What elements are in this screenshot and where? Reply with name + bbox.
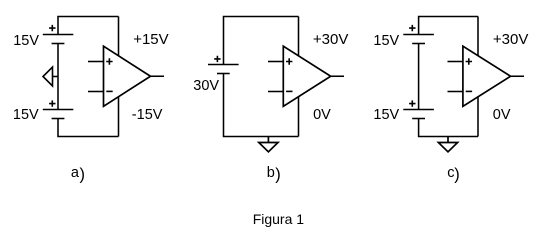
svg-text:0V: 0V [313, 107, 331, 123]
wire: circuit a bottom rail from B2 - to op-amp V- corner [58, 119, 119, 137]
wire: U1 output stub [151, 75, 165, 77]
svg-text:15V: 15V [13, 33, 39, 49]
svg-text:Figura 1: Figura 1 [253, 211, 305, 227]
battery B5 (bottom 15V source, circuit c) [403, 100, 434, 118]
wire: circuit a top rail from battery B1 + to op-amp V+ corner [58, 17, 119, 35]
U1 - input marker [106, 90, 112, 92]
U2 - input marker [286, 90, 292, 92]
wire: U3 noninverting input stub [448, 61, 464, 63]
svg-text:30V: 30V [193, 78, 219, 94]
wire: U3 inverting input stub [448, 91, 464, 93]
svg-text:): ) [275, 165, 281, 183]
common reference arrow on circuit a midpoint node [43, 67, 58, 86]
wire: U3 output stub [511, 75, 525, 77]
svg-text:-15V: -15V [132, 107, 163, 123]
wire: U1 inverting input stub [88, 91, 104, 93]
wire: U2 inverting input stub [268, 91, 284, 93]
wire: circuit a V- supply rise into op-amp U1 bottom edge [118, 96, 120, 137]
svg-text:15V: 15V [373, 107, 399, 123]
svg-text:): ) [80, 165, 86, 183]
battery B4 (top 15V source, circuit c) [403, 25, 434, 44]
wire: circuit c top rail from battery B4 + to op-amp V+ corner [419, 17, 478, 35]
wire: circuit b left rail from battery B3 + up and right to op-amp V+ corner [224, 17, 299, 65]
battery B2 (bottom 15V source, circuit a) [43, 100, 74, 118]
svg-text:15V: 15V [373, 33, 399, 49]
wire: circuit c bottom rail from B5 - to op-amp V- corner [419, 119, 478, 137]
U3 - input marker [466, 90, 472, 92]
battery B3 (30V source, circuit b) [208, 56, 239, 74]
wire: U2 noninverting input stub [268, 61, 284, 63]
svg-text:15V: 15V [13, 107, 39, 123]
svg-text:b: b [267, 165, 275, 181]
wire: circuit a V+ supply drop into op-amp U1 top edge [118, 17, 120, 58]
svg-text:+30V: +30V [313, 31, 348, 48]
op-amp U1 triangle [104, 46, 151, 106]
ground symbol GND2 on circuit c bottom rail [438, 137, 457, 152]
ground symbol GND1 on circuit b bottom rail [259, 137, 278, 152]
wire: U2 output stub [331, 75, 344, 77]
battery B1 (top 15V source, circuit a) [43, 25, 74, 44]
svg-text:+30V: +30V [493, 31, 528, 48]
U1 + input marker [106, 58, 112, 64]
wire: circuit a middle segment between B1 and B2 [57, 44, 59, 110]
wire: circuit c middle segment between B4 and B5 [418, 44, 420, 110]
svg-text:+15V: +15V [133, 31, 168, 48]
wire: circuit b V+ supply drop into op-amp U2 top edge [298, 17, 300, 58]
wire: circuit c V+ supply drop into op-amp U3 top edge [477, 17, 479, 58]
op-amp U2 triangle [283, 46, 330, 106]
U2 + input marker [286, 58, 292, 64]
svg-text:0V: 0V [493, 107, 511, 123]
U3 + input marker [466, 58, 472, 64]
wire: circuit b bottom rail from B3 - to op-amp V- corner [224, 74, 299, 137]
wire: U1 noninverting input stub [88, 61, 104, 63]
op-amp U3 triangle [463, 46, 511, 106]
wire: circuit b V- supply rise into op-amp U2 bottom edge [298, 96, 300, 137]
svg-text:): ) [454, 165, 460, 183]
wire: circuit c V- supply rise into op-amp U3 bottom edge [477, 96, 479, 137]
